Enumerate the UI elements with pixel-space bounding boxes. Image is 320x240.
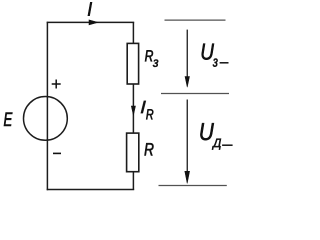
reference line top [165, 19, 226, 21]
label U_z: subscript minus [220, 62, 229, 64]
wire left vertical [46, 22, 48, 191]
resistor R body [127, 133, 139, 172]
label U_d: subscript minus [222, 144, 233, 146]
arrow U_d stem [186, 100, 188, 176]
label U_d: U [200, 123, 214, 140]
resistor R3 body [127, 43, 138, 84]
label R3: R [145, 50, 153, 61]
arrow U_d head [185, 171, 190, 183]
plus sign [52, 80, 61, 89]
current I_R arrowhead on middle wire [131, 106, 135, 116]
wire top horizontal [47, 21, 135, 23]
minus sign [53, 152, 61, 154]
current I arrowhead on top wire [89, 20, 98, 25]
arrow U_z head [185, 77, 190, 88]
label R3: subscript з [153, 60, 158, 67]
label U_d: subscript Д [212, 139, 221, 150]
voltage source E circle [24, 97, 68, 141]
arrow U_z stem [186, 30, 188, 79]
label E [4, 113, 13, 126]
reference line middle [161, 93, 229, 95]
wire right vertical top segment [132, 22, 134, 44]
label U_z: U [202, 44, 214, 60]
label I_R: subscript R [146, 109, 153, 119]
wire bottom horizontal [47, 189, 135, 191]
label I [88, 2, 92, 15]
wire between R3 and R [132, 84, 134, 134]
label I_R: I [141, 101, 146, 114]
label U_z: subscript з [213, 59, 218, 67]
wire below R [132, 171, 134, 189]
reference line bottom [159, 185, 227, 187]
label R [145, 143, 154, 155]
